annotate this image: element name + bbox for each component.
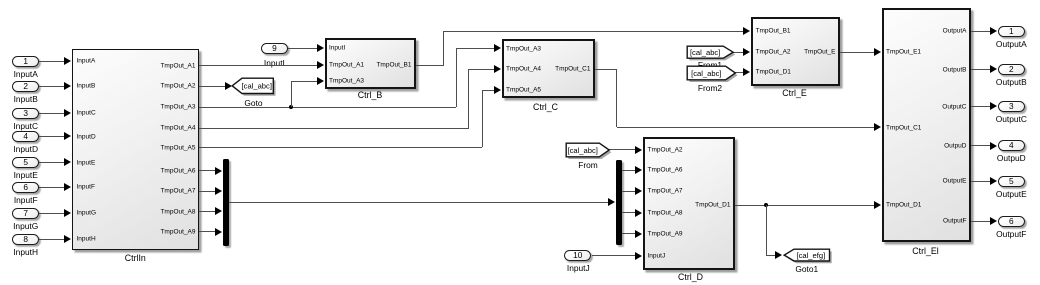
svg-text:[cal_abc]: [cal_abc] [242, 81, 272, 90]
svg-text:[cal_abc]: [cal_abc] [690, 48, 720, 57]
svg-text:[cal_abc]: [cal_abc] [691, 69, 721, 78]
svg-text:[cal_efg]: [cal_efg] [796, 250, 825, 259]
svg-text:[cal_abc]: [cal_abc] [568, 145, 598, 154]
